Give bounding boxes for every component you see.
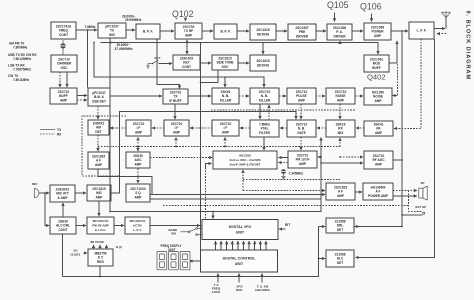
7-segment display digit 2 [169,252,179,270]
wire long vertical bus [200,43,202,250]
svg-text:SW: SW [171,232,176,236]
wire reg out 8B [93,245,95,249]
svg-text:7.8MHz: 7.8MHz [85,25,96,29]
wire reg to bus [99,267,101,277]
rx mixer B30 [326,120,355,137]
wire af board boundary [82,116,126,176]
svg-text:KEY: KEY [155,56,161,60]
node keyline j0 [109,41,111,43]
wire noise-rxmix vertical [339,104,341,119]
nb killer B20 [250,88,279,104]
wire nb section boundary [211,109,356,111]
wire tx if buff down [174,104,176,119]
svg-text:DIAL: DIAL [236,288,243,292]
wire carrier to buff dashed [59,72,61,87]
bandpass filter B5 [214,24,237,39]
wire nb k1 to k2 [239,95,249,97]
wire nb loop dashed riser [397,64,399,95]
wire ext sp return [402,214,423,216]
bandpass filter B3 [136,24,160,39]
tx mixer B2 [98,23,126,38]
wire side tone join [201,81,219,83]
svg-text:B. P. F.: B. P. F. [220,30,230,34]
crystal X2 7.345MHz [281,169,286,178]
node agc j3 [224,146,226,148]
node carrier junction [87,29,89,31]
node rf agc j [401,159,403,161]
antenna symbol [442,12,451,18]
wire buff to bmod dashed [77,99,87,101]
wire key to key cont [159,63,173,65]
wire att to mic amp [75,192,86,194]
wire if3 to if2 [152,127,164,129]
wire agc to if2 [175,138,177,147]
wire if4 to if3 [190,127,212,129]
wire gate to xtal [280,127,287,129]
svg-text:7.345MHz: 7.345MHz [289,172,304,176]
wire xtal to 2nd if [263,137,265,150]
wire drl sample line [355,226,403,228]
node mic j [44,192,46,194]
svg-text:8B 7B RB: 8B 7B RB [91,240,104,244]
wire vfo-ctrl bus 2 [220,241,222,250]
wire agc bus [98,146,340,148]
wire lpf to bus [150,225,200,227]
active lpf B44 [125,217,150,234]
wire carrier to buff solid [66,72,68,87]
wire fm if to fm det dashed [279,162,289,164]
wire rx mix line to fm if [318,156,321,158]
node txif j2 [200,95,202,97]
wire fm det down [242,170,244,191]
svg-text:7.800MHz: 7.800MHz [13,45,28,49]
wire af to speaker solid [393,195,417,197]
wire rx antenna feed [394,39,421,129]
wire buff to bmod solid [77,95,87,97]
wire to nb killer [224,77,226,87]
wire agc to agc amp [137,147,139,152]
wire bpf to tx if buff [157,39,180,89]
wire rf agc out [393,159,402,161]
ext sp jack [423,212,425,214]
svg-text:2SC1815KEYING: 2SC1815KEYING [256,59,270,67]
mic amp idc B43 [87,217,114,234]
wire vfo-ctrl bus 8 [254,241,256,250]
wire killer to xtal [259,104,261,119]
node fm j3 [320,156,322,158]
buffer amp B16 [50,88,77,104]
wire pulse-gate vertical [300,104,302,119]
wire bpf1 to tx rf amp [160,30,174,32]
svg-text:2SK30X2MIC ATT& AMP: 2SK30X2MIC ATT& AMP [56,187,70,200]
wire vfo-ctrl bus 9 [259,241,261,250]
node keyline j2 [339,42,341,44]
crystal X1 [60,40,65,55]
wire vfo-ctrl bus 7 [248,241,250,250]
node dist j keyline [93,42,95,44]
alc detector B47 [326,250,354,267]
wire noise to mc1350 [355,95,363,97]
wire antenna line vertical [356,39,435,258]
af amp B40 [326,183,355,200]
dc regulator B46 [88,249,113,266]
wire bus to nb killer [201,95,212,97]
node bus j top [200,42,202,44]
node agc j1 [137,146,139,148]
wire side tone af out [217,70,219,82]
band switch symbol [181,228,203,236]
microphone symbol [34,189,39,198]
svg-text:7.79875MHz: 7.79875MHz [13,67,31,71]
node alc j [318,258,320,260]
noise amp B22 [326,88,355,104]
side tone osc B12 [212,55,238,70]
svg-text:7.8011MHz: 7.8011MHz [13,78,30,82]
key jack symbol with ground [146,60,158,68]
wire gate to fm if [300,137,302,150]
mod buffer B14 (Q402) [364,55,389,72]
wire ext sp line [163,205,409,207]
wire keyline to pa driver [339,41,341,43]
svg-text:Q106: Q106 [360,2,382,12]
wire agc right up [339,138,341,147]
drl detector B45 [326,218,354,233]
svg-text:Q402: Q402 [367,73,386,82]
wire vfo 2nd lo dashed [205,169,207,219]
wire pa driver to power amp [352,30,363,32]
wire ctrl to display [190,260,201,262]
svg-text:7.80125MHz: 7.80125MHz [13,57,31,61]
agc amp B33 [126,152,150,168]
wire key cont to side tone [200,62,211,64]
svg-text:RIT: RIT [285,223,290,227]
wire carrier to balanced mod [87,30,89,88]
wire vfo-ctrl bus 5 [237,241,239,250]
wire vfo dial in [238,274,240,283]
legend TX solid [40,129,55,131]
low pass filter B10 [409,22,434,39]
keying stage B13 [250,55,276,71]
wire mic amp audio line [111,112,296,194]
wire tx freq lock in [217,274,219,283]
power amp B9 (Q106) [364,23,391,40]
wire bpf2 to keying [237,30,249,32]
wire sq output line [150,198,321,200]
wire bmod to tx if buff [110,95,162,97]
wire pre driver to pa driver [316,30,326,32]
wire pulse to noise [316,95,325,97]
svg-text:EXT SP: EXT SP [416,205,427,209]
tx rf amp B4 (Q102) [175,23,202,39]
wire vfo-ctrl bus 4 [231,241,233,250]
wire rf amp to rx mix [356,127,364,129]
wire Q106 arrow [371,14,373,22]
rf agc amp B36 [364,151,393,169]
wire keyline to tx rf amp [186,40,188,43]
xtal filter B28 [250,120,279,137]
key control B11 [173,55,200,70]
pa driver B8 (Q105) [327,24,352,40]
wire alc to mic att [45,193,49,226]
nb killer B19 [212,88,239,104]
wire af amp to power amp [355,191,362,193]
speaker symbol [419,186,427,200]
node fm j4 [339,156,341,158]
if amp B27 [212,120,239,136]
wire af to speaker dashed [393,190,417,192]
wire mic to att [39,192,49,194]
wire bottom bus [63,227,319,277]
node pa-lpf junction [401,30,403,32]
svg-text:29.999MHz: 29.999MHz [125,18,142,22]
pre driver B7 [288,24,316,40]
wire antenna mast [445,18,447,29]
node fm j5 [320,162,322,164]
wire af amp down [98,169,152,195]
alc drl control B42 [50,217,76,234]
wire power amp to lpf [391,30,408,32]
digital control unit B49 [201,250,278,272]
wire dc in [84,252,88,254]
wire ext sp dashed [409,191,422,212]
svg-text:B (I): B (I) [116,245,122,249]
keying stage B6 [250,24,276,40]
node keyline j1 [186,42,188,44]
node lpf bus j [200,225,202,227]
wire tx rf amp to bpf2 [202,30,213,32]
wire rf sample vertical [401,31,403,227]
wire agc to if1 [137,138,139,147]
wire nb loop [393,95,398,97]
wire keyline to key cont [186,43,188,55]
wire to rf agc solid [321,162,363,164]
wire antenna rx return [437,33,446,35]
squelch amp B39 [126,184,150,202]
svg-text:MIC: MIC [32,182,38,186]
wire tx if buff right stub [188,95,201,97]
node vfo j3 [200,211,202,213]
carrier osc B15 [51,55,77,72]
7-segment display digit 3 [180,252,190,270]
wire reg out RB [106,245,108,249]
svg-text:B. P. F.: B. P. F. [143,30,153,34]
wire to rf agc dashed [340,156,363,158]
freq control unit B1 [51,22,76,39]
7-segment display digit 1 [157,252,167,270]
legend RX dashed [40,133,55,135]
wire alc cont to idc [76,225,86,227]
wire agc amp to sq [137,169,139,184]
wire am det to af amp [97,135,99,151]
am detector B24 [88,120,109,135]
wire rit to vfo [279,228,286,230]
wire vfo distribution [110,138,321,212]
wire side tone to keying2 [238,62,249,64]
wire vfo-ctrl bus 3 [226,241,228,250]
wire xtal to if4 [240,127,250,129]
fm if det B34 [213,151,277,169]
svg-text:µPC1037B.M. &USB DET: µPC1037B.M. &USB DET [92,91,106,104]
svg-text:37.4999MHz: 37.4999MHz [115,47,133,51]
wire mod buff to power amp [389,41,397,63]
fm 1st if amp B35 [288,151,317,168]
wire keyed bias line [101,43,379,55]
af amp B32 [88,152,109,169]
wire agc to fm det dashed [150,157,212,159]
wire Q105 arrow [334,13,336,22]
node reg bus j [99,276,101,278]
svg-text:9. BLOCK DIAGRAM: 9. BLOCK DIAGRAM [464,11,470,81]
wire vfo-ctrl bus 10 [265,241,267,250]
wire mic amp to idc [98,201,100,216]
wire vfo-ctrl bus 1 [215,241,217,250]
wire killer to pulse [279,95,286,97]
node vfo j2 [212,211,214,213]
wire vfo to digital vfo unit [212,212,214,219]
wire keyline to keying2 [262,43,264,55]
node sidetone j [200,81,202,83]
wire vfo 2nd lo solid [206,164,212,170]
wire idc to lpf [114,225,124,227]
wire tx mix to bpf1 [126,29,135,31]
svg-text:LOCK: LOCK [212,290,221,294]
svg-text:kHz/100Hz: kHz/100Hz [255,288,270,292]
balanced mod usb det B17 [88,88,110,106]
wire xtal to killer dashed [268,105,270,120]
nb gate B29 [287,120,316,137]
node agc j2 [175,146,177,148]
node dist j nbk [224,76,226,78]
wire rx mix to gate [317,127,326,129]
node fm j1 [200,157,202,159]
svg-text:L. P. F.: L. P. F. [417,29,427,33]
wire alc cont to att [62,203,64,217]
svg-text:2SC1815KEYING: 2SC1815KEYING [256,28,270,36]
wire fm af line [243,190,325,192]
rx rf amp B31 [364,121,393,136]
wire vfo to tx mix vertical [109,39,111,212]
wire reg out 7B [99,245,101,249]
wire fm section dashed [243,179,340,181]
wire agc to if3 [224,138,226,147]
noise amp B23 [364,88,392,105]
tx if buffer B18 [163,89,188,104]
wire bus to alc det [319,258,326,260]
svg-text:13.8(V): 13.8(V) [70,252,80,256]
wire bmod to am det [97,106,99,119]
wire if distribution line [94,43,264,88]
mic att amp B37 [50,185,75,202]
node ext sp j [401,214,403,216]
if amp B26 [164,120,189,136]
wire step sw in [261,274,263,283]
wire fm if to fm det solid [279,157,289,159]
mic amp B38 [87,185,111,201]
node vfo j1 [109,211,111,213]
wire carrier 7.8MHz to tx mix [76,29,97,31]
wire bus to drl det [319,226,326,228]
wire af line to af amp [150,194,325,196]
wire alc cont to bus [62,234,64,277]
wire keying to pre driver [276,30,287,32]
wire lpf to antenna [434,28,445,30]
wire vfo-ctrl bus 6 [243,241,245,250]
wire if to am det [110,127,126,129]
if amp B25 [126,120,151,136]
digital vfo unit B48 [202,220,278,240]
svg-text:SP: SP [421,181,425,185]
svg-text:Q105: Q105 [327,0,349,10]
node drl junction [401,226,403,228]
wire Q102 arrow [185,19,187,21]
pulse amp B21 [287,88,316,104]
af power amp B41 [363,183,393,200]
svg-text:Q102: Q102 [172,9,194,19]
